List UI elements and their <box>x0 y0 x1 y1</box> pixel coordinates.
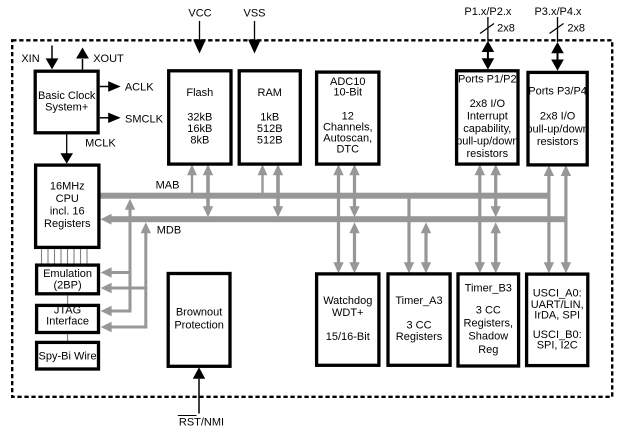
svg-text:SMCLK: SMCLK <box>125 113 164 125</box>
wire RAM to MDB double arrow <box>273 164 283 175</box>
svg-text:incl. 16: incl. 16 <box>50 206 85 218</box>
svg-text:2x8: 2x8 <box>497 23 515 35</box>
svg-text:pull-up/down: pull-up/down <box>526 124 588 136</box>
wire JTAG to Spy-Bi Wire <box>67 334 69 341</box>
P1/P2 double arrow <box>487 47 489 63</box>
CPU block <box>36 165 99 247</box>
wire MDB to Timer_B3 double arrow <box>491 222 501 233</box>
svg-text:capability,: capability, <box>463 123 511 135</box>
RAM block <box>239 71 300 164</box>
JTAG Interface block <box>37 305 99 332</box>
svg-text:Basic Clock: Basic Clock <box>38 90 96 102</box>
svg-text:Reg: Reg <box>478 344 498 356</box>
svg-text:32kB: 32kB <box>187 112 212 124</box>
svg-text:MAB: MAB <box>156 180 180 192</box>
wire Ports P1/P2 to MDB double arrow <box>491 164 501 175</box>
svg-text:Registers: Registers <box>396 331 443 343</box>
svg-text:MCLK: MCLK <box>85 138 116 150</box>
VCC arrow <box>199 21 200 41</box>
svg-text:resistors: resistors <box>467 148 509 160</box>
svg-text:VSS: VSS <box>243 8 265 20</box>
P1/P2 bus-width slash <box>480 24 494 34</box>
wire into JTAG from MDB line <box>101 322 112 332</box>
Flash block <box>169 71 231 164</box>
wire ADC10 to Watchdog long double arrow <box>333 164 343 175</box>
wire MAB down to Emulation and JTAG <box>125 199 135 210</box>
wire Emulation to JTAG <box>67 295 69 303</box>
svg-text:System+: System+ <box>45 102 88 114</box>
Brownout Protection block <box>168 274 230 367</box>
wire MAB to RAM <box>258 164 268 175</box>
wire Ports P3/P4 to USCI long double arrow at MDB junction <box>561 165 571 176</box>
svg-text:WDT+: WDT+ <box>332 307 363 319</box>
svg-text:2x8: 2x8 <box>567 23 585 35</box>
svg-text:USCI_A0:: USCI_A0: <box>533 288 582 300</box>
Timer_A3 block <box>388 274 450 365</box>
XIN arrow <box>51 46 53 60</box>
svg-text:pull-up/down: pull-up/down <box>456 136 518 148</box>
svg-text:resistors: resistors <box>537 136 579 148</box>
Emulation block <box>37 265 99 294</box>
wire MAB to Flash <box>187 164 197 175</box>
svg-text:3 CC: 3 CC <box>406 320 431 332</box>
svg-text:Shadow: Shadow <box>468 331 508 343</box>
svg-text:Registers: Registers <box>44 218 91 230</box>
svg-text:DTC: DTC <box>336 144 359 156</box>
svg-text:P1.x/P2.x: P1.x/P2.x <box>464 6 512 18</box>
svg-text:Registers,: Registers, <box>464 318 514 330</box>
wire ADC10 to MDB double arrow <box>349 164 359 175</box>
MAB bus <box>100 193 550 199</box>
svg-text:MDB: MDB <box>157 225 181 237</box>
svg-text:1kB: 1kB <box>260 112 279 124</box>
svg-text:IrDA, SPI: IrDA, SPI <box>534 310 580 322</box>
wire into JTAG from MAB line <box>101 306 112 316</box>
svg-text:Ports P3/P4: Ports P3/P4 <box>528 86 587 98</box>
wire Ports P1/P2 to Timer_B3 long double arrow <box>475 164 485 175</box>
RST overline <box>178 415 197 417</box>
Ports P3/P4 block <box>528 72 587 164</box>
Timer_B3 block <box>458 274 519 366</box>
svg-text:Ports P1/P2: Ports P1/P2 <box>458 74 517 86</box>
MCLK wire and arrow <box>66 134 67 154</box>
wire MDB to Watchdog double arrow <box>349 222 359 233</box>
MDB bus <box>111 216 568 222</box>
svg-text:Timer_B3: Timer_B3 <box>465 283 512 295</box>
svg-text:XOUT: XOUT <box>93 53 124 65</box>
wire Ports P3/P4 to USCI long double arrow at MAB junction <box>544 165 554 176</box>
RST/NMI arrow into Brownout <box>198 379 200 414</box>
svg-text:ACLK: ACLK <box>125 81 154 93</box>
svg-text:3 CC: 3 CC <box>476 305 501 317</box>
svg-text:RST/NMI: RST/NMI <box>179 417 224 429</box>
USCI block <box>527 274 588 366</box>
svg-text:SPI, I2C: SPI, I2C <box>537 340 578 352</box>
Basic Clock System+ block <box>35 71 98 133</box>
svg-text:Emulation: Emulation <box>43 268 92 280</box>
svg-text:Flash: Flash <box>186 87 213 99</box>
svg-text:RAM: RAM <box>258 87 282 99</box>
svg-text:512B: 512B <box>257 123 283 135</box>
svg-text:P3.x/P4.x: P3.x/P4.x <box>534 6 582 18</box>
wire MDB to Timer_A3 double arrow <box>421 222 431 233</box>
svg-text:VCC: VCC <box>188 8 211 20</box>
svg-text:16MHz: 16MHz <box>50 181 85 193</box>
svg-text:Interrupt: Interrupt <box>467 111 508 123</box>
svg-text:(2BP): (2BP) <box>53 280 81 292</box>
svg-text:Watchdog: Watchdog <box>323 295 372 307</box>
chip boundary dashed border <box>12 40 612 397</box>
svg-text:CPU: CPU <box>56 193 79 205</box>
svg-text:2x8 I/O: 2x8 I/O <box>470 98 506 110</box>
SMCLK arrow <box>100 117 110 119</box>
wire MAB to Timer_A3 <box>407 194 410 264</box>
svg-text:8kB: 8kB <box>190 135 209 147</box>
svg-text:Protection: Protection <box>174 320 224 332</box>
wire into Emulation from MAB line <box>101 267 112 277</box>
P1/P2 pin wire <box>487 17 488 41</box>
P3/P4 double arrow <box>557 48 559 64</box>
svg-text:2x8 I/O: 2x8 I/O <box>540 111 576 123</box>
svg-text:Spy-Bi Wire: Spy-Bi Wire <box>39 351 97 363</box>
P3/P4 pin wire <box>557 17 558 42</box>
Spy-Bi Wire block <box>37 342 99 369</box>
wire Flash to MDB double arrow <box>203 164 213 175</box>
svg-text:10-Bit: 10-Bit <box>333 87 362 99</box>
P3/P4 bus-width slash <box>550 24 564 34</box>
svg-text:15/16-Bit: 15/16-Bit <box>326 331 370 343</box>
ACLK arrow <box>100 86 110 88</box>
XOUT arrow <box>82 59 84 69</box>
Ports P1/P2 block <box>457 71 518 164</box>
wire into Emulation from MDB line <box>101 283 112 293</box>
Watchdog WDT+ block <box>317 274 379 365</box>
svg-text:Interface: Interface <box>46 316 89 328</box>
svg-text:Timer_A3: Timer_A3 <box>395 295 442 307</box>
svg-text:XIN: XIN <box>21 53 39 65</box>
wire MDB down to Emulation and JTAG <box>141 222 151 233</box>
CPU to Emulation hatch lines <box>42 249 88 265</box>
svg-text:512B: 512B <box>257 135 283 147</box>
ADC10 block <box>317 72 379 164</box>
VSS arrow <box>254 21 255 41</box>
svg-text:16kB: 16kB <box>187 123 212 135</box>
svg-text:Brownout: Brownout <box>176 307 222 319</box>
